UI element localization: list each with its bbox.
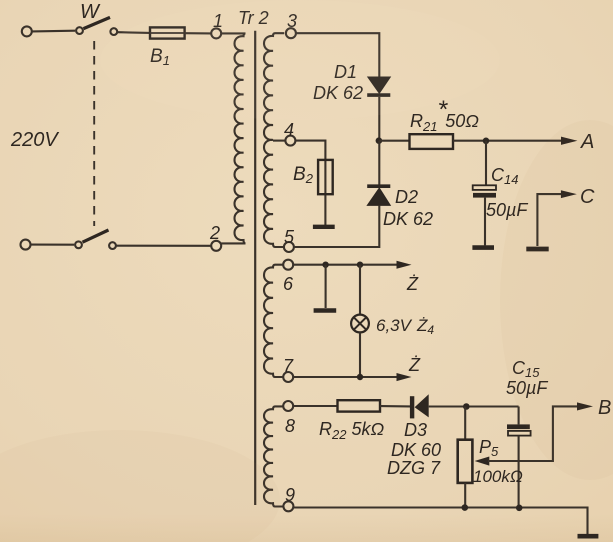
secondary winding 3-4-5 <box>264 33 284 247</box>
resistor R22 <box>338 400 381 411</box>
terminal 4 <box>285 136 295 146</box>
switch W blade (top) <box>84 17 111 28</box>
svg-text:6,3V: 6,3V <box>376 316 413 335</box>
capacitor C15 plate (filled) <box>507 424 530 429</box>
svg-text:D3: D3 <box>404 420 427 440</box>
arrow output B <box>577 402 593 410</box>
svg-text:100kΩ: 100kΩ <box>473 467 523 486</box>
resistor R21 <box>410 134 454 149</box>
ground bar under C14 <box>472 245 494 250</box>
transformer Tr2 primary winding (1-2) <box>221 33 245 243</box>
terminal 8 <box>283 401 293 411</box>
terminal 6 <box>283 260 293 270</box>
wire row 6 <box>294 264 398 266</box>
svg-text:R22 5kΩ: R22 5kΩ <box>319 419 384 442</box>
potentiometer P5 body <box>458 440 473 483</box>
svg-text:DZG 7: DZG 7 <box>387 458 441 478</box>
switch W top contact left <box>76 27 83 34</box>
svg-text:Ż: Ż <box>408 355 421 375</box>
dashed link of switch W <box>93 41 95 226</box>
diode D2 <box>367 184 390 188</box>
svg-text:4: 4 <box>284 120 294 140</box>
ground bar under C <box>526 247 548 252</box>
svg-text:8: 8 <box>285 416 295 436</box>
wire node to D2 <box>378 141 380 185</box>
wire node to R21 <box>379 140 409 142</box>
terminal top-left (220V input) <box>22 26 32 36</box>
wire <box>32 30 75 33</box>
wire D3 to junction <box>429 405 519 407</box>
svg-text:DK 60: DK 60 <box>391 440 441 460</box>
fuse B2 <box>318 160 333 194</box>
diode D3 (cathode bar left) <box>410 396 414 418</box>
wire row 8 <box>294 405 338 407</box>
wire D1 to node <box>378 97 380 141</box>
ground bar (row 6) <box>314 308 337 313</box>
arrow output C <box>561 190 577 198</box>
diode D1 <box>368 77 391 93</box>
terminal bottom-left (220V input) <box>21 240 31 250</box>
wire output C <box>537 194 562 246</box>
node at C14 <box>483 138 490 145</box>
svg-text:7: 7 <box>283 356 294 376</box>
node junction <box>376 137 383 144</box>
junction C15/bottom <box>516 505 523 512</box>
secondary winding 6-7 <box>264 265 283 377</box>
wire C14 to ground <box>484 198 486 246</box>
transformer core <box>254 31 256 505</box>
faint scan mottling (decorative) <box>0 430 280 542</box>
terminal 9 <box>283 501 293 511</box>
winding tap to terminal 4 <box>273 140 285 142</box>
wire row 7 <box>294 376 398 378</box>
switch W bottom contact right <box>109 242 116 249</box>
svg-text:D2: D2 <box>395 187 418 207</box>
terminal 7 <box>283 372 293 382</box>
wire <box>116 245 211 247</box>
terminal 5 <box>284 242 294 252</box>
wire junction down to P5 <box>464 407 466 440</box>
wire node to C14 <box>485 141 487 186</box>
svg-text:DK 62: DK 62 <box>383 209 433 229</box>
wire P5 to bottom row <box>464 483 466 508</box>
capacitor C15 plate (hollow) <box>508 431 531 436</box>
junction on row 6 (ground) <box>322 262 328 268</box>
junction row 7 <box>357 374 363 380</box>
wire row 3 to D1 <box>296 33 379 76</box>
svg-text:2: 2 <box>209 223 220 243</box>
switch W blade (bottom) <box>83 230 109 242</box>
capacitor C14 plate (filled) <box>473 193 496 198</box>
svg-text:220V: 220V <box>10 129 59 151</box>
svg-text:Ż: Ż <box>406 274 419 294</box>
fuse B1 <box>150 27 185 38</box>
arrow Z-dot bottom <box>397 373 412 381</box>
wire R21 to node A <box>453 140 562 142</box>
svg-text:5: 5 <box>284 227 295 247</box>
arrow Z-dot top <box>397 261 412 269</box>
wire lamp to row 7 <box>359 332 361 377</box>
wire terminal 4 to B2 (passes through fuse) <box>296 141 326 225</box>
junction on row 6 (lamp) <box>357 262 363 268</box>
capacitor C14 plate (+, hollow) <box>473 185 496 190</box>
wire <box>31 244 74 246</box>
wire R22 to D3 <box>380 405 410 407</box>
secondary winding 8-9 <box>264 406 284 506</box>
wire <box>185 32 212 34</box>
terminal 1 <box>211 28 221 38</box>
junction above P5 <box>463 403 470 410</box>
switch W top contact right <box>110 28 117 35</box>
arrow output A <box>561 137 577 145</box>
svg-text:9: 9 <box>285 485 295 505</box>
svg-text:6: 6 <box>283 274 294 294</box>
bottom row (9) <box>294 508 588 535</box>
junction P5/bottom <box>462 504 469 511</box>
wire to ground bar <box>325 265 327 308</box>
switch W bottom contact left <box>75 241 82 248</box>
P5 wiper arrow <box>475 457 490 466</box>
wire <box>118 31 151 34</box>
ground bar bottom right <box>578 534 599 539</box>
wire D2 to row 5 <box>294 205 379 247</box>
lamp Z4 6.3V <box>351 315 369 333</box>
wire C15 down <box>518 407 520 425</box>
ground bar under B2 <box>313 225 335 229</box>
terminal 2 <box>211 241 221 251</box>
terminal 3 <box>286 28 296 38</box>
wire to lamp <box>359 265 361 315</box>
svg-text:W: W <box>80 1 101 23</box>
